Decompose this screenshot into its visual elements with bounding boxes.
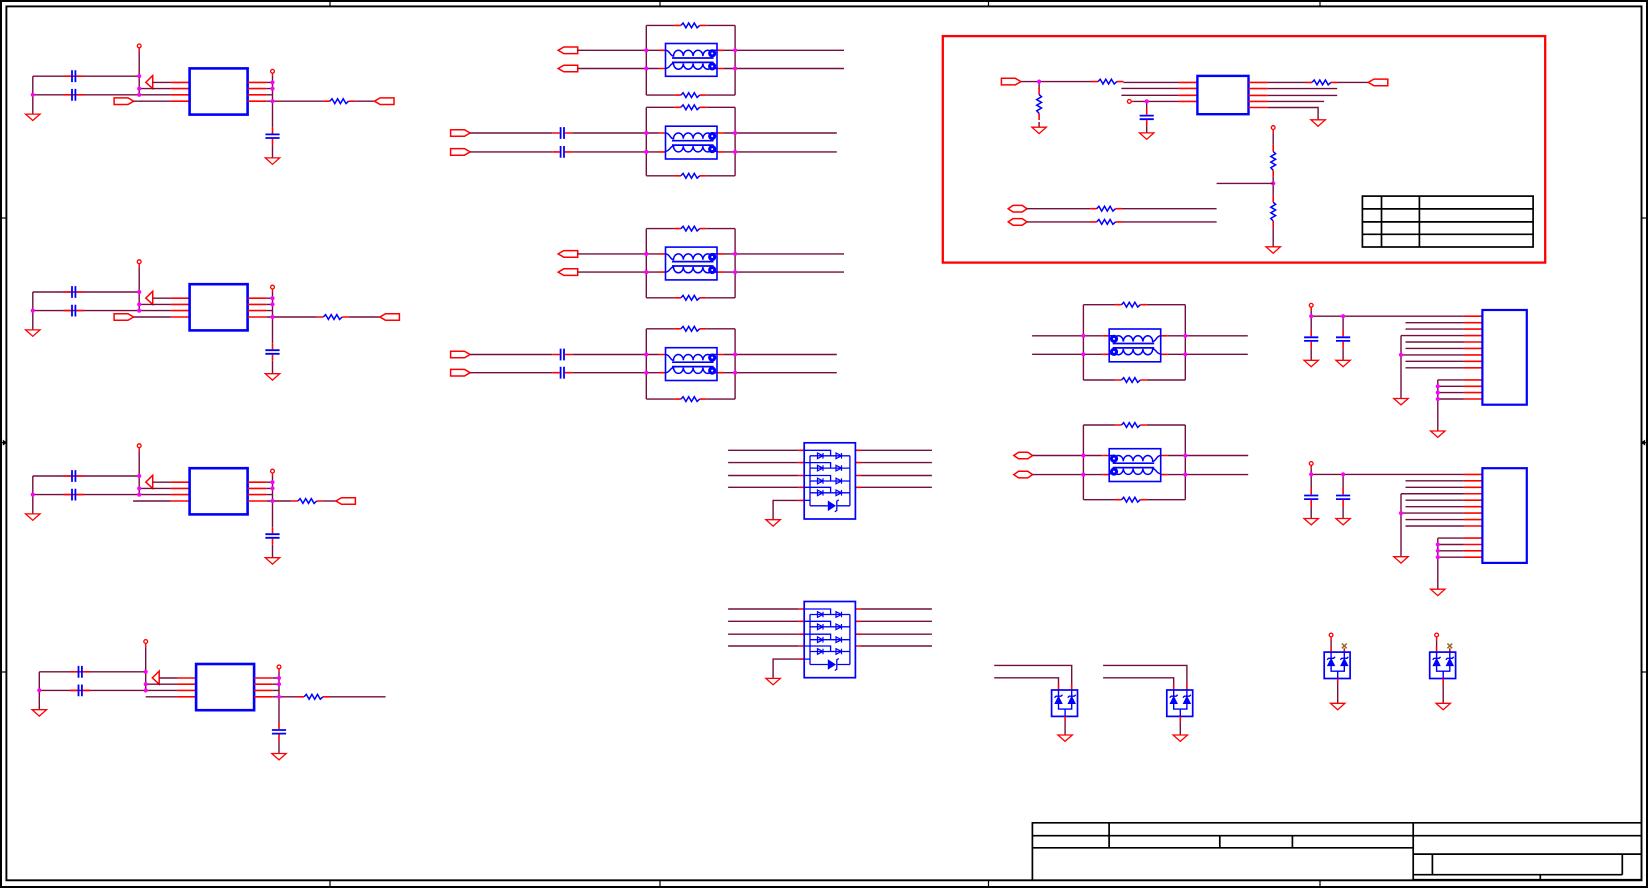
choke R1 row wires (1083, 336, 1185, 355)
choke T1 left wires (578, 50, 647, 68)
capacitor connector J2 bulk A (1310, 474, 1312, 488)
ground ESD array D2 (766, 678, 780, 684)
capacitor block3 C-b (64, 489, 84, 501)
wire block1 pin1 (153, 81, 171, 83)
power pin ESD pack Z3 (1329, 633, 1333, 637)
ground connector J2 shield (1394, 557, 1408, 563)
zone tick top 4 (1319, 1, 1321, 6)
wire block4 bottom AC-coupling net (39, 689, 145, 691)
wire block4 output open end (330, 696, 386, 698)
capacitor choke T4 A (552, 349, 572, 361)
power pin block2 right (271, 285, 275, 289)
ESD pack Z3 internal diodes (1327, 652, 1348, 678)
wire block3 left bracket vertical (32, 476, 34, 514)
pins block1 left side (171, 82, 190, 101)
wire red-box divider bottom (1272, 228, 1274, 247)
wire block2 pin2 (139, 303, 171, 305)
wire block3 pin1 (153, 481, 171, 483)
power pin connector J2 (1309, 462, 1313, 466)
ground block2 left (26, 330, 40, 336)
capacitor choke T2 A (552, 127, 572, 139)
wire block4 filter drop (278, 697, 280, 723)
resistor block1 series output (323, 99, 355, 104)
power pin block4 right (277, 665, 281, 669)
wire block4 left bracket vertical (38, 672, 40, 710)
ground ESD array D1 (766, 520, 780, 526)
wire connector J2 lower ground drop (1437, 538, 1439, 589)
choke R2 left wires (1033, 456, 1084, 475)
ESD array D2 internal diodes (804, 609, 850, 671)
ground red-box decoupling (1140, 133, 1154, 139)
zone tick top 2 (659, 1, 661, 6)
port block1 input arrow (146, 76, 153, 89)
wire block1 to output port (355, 100, 374, 102)
connector J2 body (1482, 468, 1526, 563)
ESD array D1 internal diodes (804, 450, 850, 512)
port choke T1 A (558, 47, 578, 54)
wire block2 pin3 (139, 310, 171, 312)
power pin red-box pin4 (1127, 100, 1131, 104)
port choke T4 A (451, 351, 471, 358)
choke T2 body (666, 126, 718, 159)
junction dot connector J2 shield (1399, 511, 1403, 515)
pins block4 right side (254, 678, 273, 697)
no-connect X ESD pack Z3 (1342, 644, 1347, 649)
ESD array D2 left wires (728, 609, 799, 646)
wire block1 top AC-coupling net (33, 75, 139, 77)
wires connector J2 signal rows (1401, 481, 1464, 526)
port red-box input (1001, 78, 1021, 85)
choke R1 right wires (1185, 336, 1248, 355)
choke T2 left wires with caps (470, 133, 646, 152)
ground red-box row5 (1311, 120, 1325, 126)
pins block3 left side (171, 482, 190, 501)
resistor choke T4 bottom (674, 397, 706, 402)
pins block3 right side (248, 482, 267, 501)
choke T1 feedback loop left rail (645, 25, 647, 95)
resistor choke T4 top (674, 326, 706, 331)
ground block2 filter (265, 374, 279, 380)
wire block2 pin4 (134, 316, 171, 318)
pins ESD array D2 (799, 609, 861, 659)
port choke T3 B (558, 269, 578, 276)
ESD array D2 ground wire (773, 659, 799, 678)
wires block1 right pins to rail (266, 82, 272, 101)
wire red-box divider tap (1217, 182, 1274, 184)
junction dots connector J1 top (1309, 314, 1345, 318)
choke R1 body (1109, 329, 1161, 362)
ground block1 left (26, 114, 40, 120)
choke R1 loop right rail (1184, 305, 1186, 380)
ground connector J1 lower (1431, 431, 1445, 437)
pins choke T2 (659, 133, 725, 152)
wire block3 filter to ground (272, 545, 274, 558)
pins block2 right side (248, 298, 267, 317)
pins red-box IC right (1249, 82, 1268, 107)
wire block4 pin3 (146, 689, 178, 691)
power pin block1 left (137, 44, 141, 48)
capacitor block4 C-b (70, 685, 90, 697)
ESD array D1 ground wire (773, 500, 799, 519)
choke T4 left wires with caps (470, 355, 646, 373)
wire red-box divider top (1272, 130, 1274, 145)
wire connector J1 cap A to ground (1310, 348, 1312, 360)
port choke T2 B (451, 149, 471, 156)
choke T1 body (666, 44, 718, 77)
junction dot red-box pin4 (1145, 99, 1149, 103)
wire block3 pin2 (139, 487, 171, 489)
choke T4 body (666, 348, 718, 381)
wire block2 power drop (138, 264, 140, 311)
port choke T3 A (558, 251, 578, 258)
zone tick top 1 (329, 1, 331, 6)
choke T4 bottom loop wire (646, 398, 735, 400)
port block1 output (375, 98, 395, 105)
power pin connector J1 (1309, 303, 1313, 307)
power pin block4 left (144, 640, 148, 644)
choke T2 top loop wire (646, 106, 735, 108)
resistor choke T3 bottom (674, 295, 706, 300)
wire red-box decoupling to ground (1146, 126, 1148, 133)
wire block1 power drop (138, 48, 140, 95)
wire block3 bottom AC-coupling net (33, 494, 139, 496)
wire block3 to output port (323, 500, 336, 502)
zone tick bottom 1 (329, 880, 331, 886)
pins red-box IC left (1178, 82, 1197, 101)
wire red-box input (1021, 81, 1092, 83)
wires block4 right pins to rail (273, 678, 279, 697)
choke R2 loop right rail (1184, 425, 1186, 500)
ESD array D2 right wires (861, 609, 932, 646)
capacitor choke T4 B (552, 367, 572, 379)
resistor red-box aux B (1090, 220, 1122, 225)
ground connector J2 cap B (1336, 519, 1350, 525)
ground block4 filter (272, 754, 286, 760)
power pin block1 right (271, 69, 275, 73)
wire ESD pack Z4 ground (1442, 684, 1444, 704)
table red-box notes (1362, 196, 1533, 247)
junction dot red-box divider (1271, 181, 1275, 185)
resistor red-box series output (1305, 80, 1337, 85)
ground connector J1 cap A (1304, 360, 1318, 366)
power pin block3 left (137, 444, 141, 448)
port choke T4 B (451, 369, 471, 376)
no-connect X ESD pack Z4 (1447, 644, 1452, 649)
ESD array D1 body (804, 443, 855, 519)
port choke T1 B (558, 65, 578, 72)
capacitor connector J1 bulk B (1342, 316, 1344, 330)
ESD array D1 right wires (861, 450, 932, 487)
capacitor connector J2 bulk B (1342, 474, 1344, 488)
junction dots connector J2 lower (1436, 542, 1440, 559)
capacitor block1 filter (265, 127, 279, 145)
wire block1 filter drop (272, 101, 274, 127)
wire connector J2 shield drop (1400, 494, 1402, 557)
wires connector J1 lower group (1438, 380, 1464, 399)
wires connector J1 signal rows (1401, 323, 1464, 368)
ground red-box divider (1266, 247, 1280, 253)
choke T2 windings (666, 132, 718, 153)
choke T3 loop right rail (734, 229, 736, 298)
choke R2 feedback loop left rail (1082, 425, 1084, 500)
junction dots choke T3 (644, 252, 737, 274)
wire ESD pack Z4 power (1436, 637, 1438, 652)
IC red-box body (1197, 76, 1248, 114)
resistor block4 series output (298, 694, 330, 699)
choke T3 windings (666, 253, 718, 274)
capacitor block1 C-b (64, 89, 84, 101)
junction dot connector J1 shield (1399, 353, 1403, 357)
wire ESD pack Z3 ground (1337, 684, 1339, 704)
capacitor block3 filter (265, 527, 279, 545)
port block3 input arrow (146, 475, 153, 488)
pins ESD pack Z1 top (1059, 684, 1072, 690)
wire block3 pin3 (139, 494, 171, 496)
ESD pack Z4 body (1430, 652, 1456, 678)
choke T2 right wires (735, 133, 837, 152)
resistor choke T1 top (674, 23, 706, 28)
port block4 input arrow (152, 671, 159, 684)
pins choke T3 (659, 254, 725, 272)
zone marker arrow left (1, 440, 7, 446)
resistor choke T2 top (674, 105, 706, 110)
wire red-box shunt to ground (1038, 122, 1040, 127)
choke R1 bottom loop wire (1083, 379, 1185, 381)
capacitor block4 filter (272, 723, 286, 741)
IC block4 body (196, 664, 254, 710)
pins connector J1 (1464, 316, 1483, 399)
capacitor block2 C-b (64, 305, 84, 317)
pins choke T1 (659, 50, 725, 68)
wire block4 filter to ground (278, 741, 280, 754)
choke T3 feedback loop left rail (645, 229, 647, 298)
ground connector J1 cap B (1336, 360, 1350, 366)
wire block3 pin4 (133, 500, 171, 502)
capacitor choke T2 B (552, 146, 572, 158)
ESD pack Z2 body (1167, 690, 1193, 716)
pin ESD pack Z1 ground (1064, 716, 1066, 721)
ESD pack Z4 internal diodes (1433, 652, 1454, 678)
choke T4 top loop wire (646, 328, 735, 330)
junction dots block4 (37, 670, 281, 699)
wire block1 pin4 (134, 100, 171, 102)
wire red-box divider middle (1272, 177, 1274, 196)
zone tick right upper (1642, 217, 1648, 219)
choke T3 left wires (578, 254, 647, 272)
zone tick right lower (1642, 671, 1648, 673)
port choke T2 A (451, 130, 471, 137)
capacitor connector J1 bulk A (1310, 316, 1312, 330)
wire connector J2 power feed (1311, 465, 1464, 474)
wire red-box output row1 (1268, 81, 1368, 83)
wires block2 right pins to rail (266, 298, 272, 317)
choke T1 right wires (735, 50, 844, 68)
wire red-box row4 (1268, 100, 1324, 102)
port red-box output (1368, 79, 1388, 86)
pins choke T4 (659, 355, 725, 373)
port red-box aux A (1008, 205, 1027, 212)
resistor choke R1 bottom (1115, 378, 1147, 383)
pin ESD pack Z2 ground (1179, 716, 1181, 721)
zone tick bottom 2 (659, 880, 661, 886)
wire red-box aux A (1027, 208, 1217, 210)
wire ESD pack Z1 line A (994, 665, 1071, 684)
wire red-box decoupling drop (1146, 101, 1148, 114)
choke T3 top loop wire (646, 228, 735, 230)
junction dots connector J2 top (1309, 472, 1345, 476)
ESD pack Z1 body (1052, 690, 1078, 716)
ground connector J1 shield (1394, 399, 1408, 405)
wire block4 power drop (145, 643, 147, 690)
wires connector J2 lower group (1438, 538, 1464, 557)
zone tick bottom 4 (1319, 880, 1321, 886)
choke T3 row wires (646, 254, 735, 272)
title block field dividers (1109, 823, 1622, 880)
port choke R2 A (1014, 452, 1033, 459)
power pin red-box divider (1271, 126, 1275, 130)
resistor block2 series output (317, 315, 349, 320)
wire ESD pack Z1 line B (994, 678, 1058, 684)
resistor choke R2 bottom (1115, 497, 1147, 502)
choke T2 loop right rail (734, 107, 736, 176)
capacitor block1 C-a (64, 70, 84, 82)
choke R1 windings (1109, 335, 1161, 356)
ground ESD pack Z2 (1173, 735, 1187, 741)
wire red-box row2 (1268, 88, 1337, 90)
choke T4 loop right rail (734, 329, 736, 399)
choke R2 right wires (1185, 456, 1248, 475)
pins choke R1 (1102, 336, 1168, 355)
junction dot red-box input (1037, 80, 1041, 84)
port block3 output (336, 498, 356, 505)
zone tick top 3 (988, 1, 990, 6)
junction dots choke R2 (1081, 453, 1187, 476)
resistor choke R1 top (1115, 302, 1147, 307)
junction dots choke T1 (644, 48, 737, 70)
resistor choke T1 bottom (674, 93, 706, 98)
pins ESD array D1 (799, 450, 861, 500)
pins ESD pack Z2 top (1174, 684, 1187, 690)
resistor block3 series output (291, 499, 323, 504)
port block1 row4 output (114, 98, 134, 105)
choke T3 bottom loop wire (646, 297, 735, 299)
wire connector J1 lower ground drop (1437, 380, 1439, 431)
choke T2 feedback loop left rail (645, 107, 647, 176)
choke T1 loop right rail (734, 25, 736, 95)
choke R2 windings (1109, 455, 1161, 476)
wire block3 right rail (272, 473, 274, 501)
choke T1 windings (666, 49, 718, 70)
ground connector J2 cap A (1304, 519, 1318, 525)
wire connector J2 cap A to ground (1310, 506, 1312, 518)
junction dots block2 (31, 290, 275, 319)
wire block2 right rail (272, 289, 274, 317)
highlight rectangle (red callout box) (943, 36, 1545, 263)
pins choke R2 (1102, 456, 1168, 475)
junction dots choke T4 (644, 352, 737, 374)
choke R2 body (1109, 449, 1161, 482)
resistor choke T3 top (674, 226, 706, 231)
choke T2 bottom loop wire (646, 175, 735, 177)
choke T3 body (666, 247, 718, 280)
IC block1 body (190, 68, 248, 114)
zone tick bottom 3 (988, 880, 990, 886)
wires block3 right pins to rail (266, 482, 272, 501)
wire block2 pin1 (153, 297, 171, 299)
wire block1 bottom AC-coupling net (33, 94, 139, 96)
pins block2 left side (171, 298, 190, 317)
wire block4 right rail (278, 669, 280, 697)
zone tick left upper (1, 217, 6, 219)
wire red-box shunt drop (1038, 82, 1040, 89)
choke R1 left wires (1032, 336, 1083, 355)
port red-box aux B (1008, 219, 1027, 226)
wire block1 filter to ground (272, 145, 274, 158)
wire connector J1 shield drop (1400, 336, 1402, 399)
resistor red-box divider lower (1271, 196, 1276, 228)
ESD pack Z1 internal diodes (1055, 690, 1076, 716)
wire block2 filter drop (272, 317, 274, 343)
pin ESD pack Z3 ground (1337, 679, 1339, 684)
ground red-box shunt (1032, 127, 1046, 133)
power pin block2 left (137, 260, 141, 264)
choke T1 top loop wire (646, 24, 735, 26)
resistor red-box shunt (1037, 88, 1042, 120)
wire block3 top AC-coupling net (33, 475, 139, 477)
wire block3 power drop (138, 448, 140, 495)
wires red-box IC left rows (1121, 82, 1178, 101)
wire block3 output run (273, 500, 292, 502)
wire block1 left bracket vertical (32, 76, 34, 114)
junction dots block1 (31, 74, 275, 103)
wire ESD pack Z2 ground (1179, 721, 1181, 735)
wire red-box aux B (1027, 221, 1217, 223)
choke T2 row wires (646, 133, 735, 152)
wire connector J2 cap B to ground (1342, 506, 1344, 518)
wire block2 top AC-coupling net (33, 291, 139, 293)
wire block2 bottom AC-coupling net (33, 310, 139, 312)
wire block4 top AC-coupling net (39, 671, 145, 673)
ground ESD pack Z4 (1436, 703, 1450, 709)
wire ESD pack Z2 line B (1103, 678, 1174, 684)
pin ESD pack Z4 NC stub (1449, 648, 1451, 652)
ground block1 filter (265, 158, 279, 164)
ESD array D1 left wires (728, 450, 799, 487)
choke T1 bottom loop wire (646, 94, 735, 96)
wire block1 output run (273, 100, 324, 102)
ground ESD pack Z1 (1058, 735, 1072, 741)
connector J1 body (1482, 310, 1526, 405)
port block2 row4 output (114, 314, 134, 321)
ground block3 left (26, 514, 40, 520)
choke T4 windings (666, 354, 718, 375)
ground block3 filter (265, 558, 279, 564)
wire block4 output run (279, 696, 298, 698)
port choke R2 B (1014, 471, 1033, 478)
wire block4 pin1 (159, 677, 177, 679)
junction dots connector J1 lower (1436, 384, 1440, 401)
power pin ESD pack Z4 (1435, 633, 1439, 637)
choke T3 right wires (735, 254, 844, 272)
capacitor block2 C-a (64, 286, 84, 298)
wire block3 filter drop (272, 501, 274, 527)
capacitor red-box decoupling (1140, 109, 1154, 127)
port block2 output (380, 314, 400, 321)
choke R2 top loop wire (1083, 424, 1185, 426)
resistor red-box aux A (1090, 206, 1122, 211)
port block2 input arrow (146, 291, 153, 304)
capacitor block3 C-a (64, 470, 84, 482)
